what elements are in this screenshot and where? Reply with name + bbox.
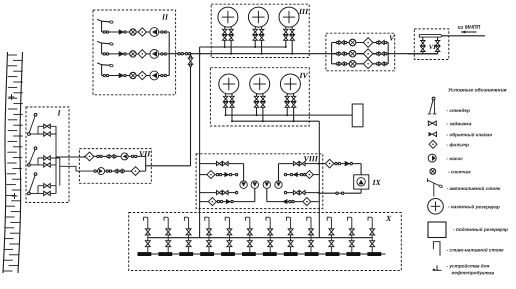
svg-text:Условные обозначения: Условные обозначения [448, 87, 507, 94]
svg-text:- подземный резервуар: - подземный резервуар [453, 226, 508, 232]
svg-text:IV: IV [298, 71, 308, 80]
svg-text:- обратный клапан: - обратный клапан [446, 131, 492, 137]
svg-text:VIII: VIII [303, 154, 318, 163]
svg-text:- насос: - насос [446, 156, 463, 161]
svg-text:VI: VI [429, 44, 436, 51]
svg-text:III: III [298, 7, 309, 16]
svg-text:из МНПП: из МНПП [457, 25, 480, 31]
svg-text:- счетчик: - счетчик [448, 169, 471, 174]
svg-text:V: V [389, 34, 395, 43]
svg-text:IX: IX [371, 178, 381, 187]
svg-text:- устройства для: - устройства для [446, 263, 489, 269]
svg-text:- сливо-наливной стояк: - сливо-наливной стояк [446, 247, 504, 253]
svg-text:- фильтр: - фильтр [446, 141, 469, 147]
svg-text:нефтепродуктов: нефтепродуктов [451, 269, 494, 275]
svg-text:- автоналивной стояк: - автоналивной стояк [446, 185, 501, 191]
svg-text:- наземный резервуар: - наземный резервуар [448, 203, 500, 209]
svg-text:X: X [385, 214, 392, 223]
svg-text:II: II [161, 12, 169, 21]
svg-text:- задвижка: - задвижка [446, 121, 471, 126]
svg-text:- стендер: - стендер [446, 108, 470, 113]
